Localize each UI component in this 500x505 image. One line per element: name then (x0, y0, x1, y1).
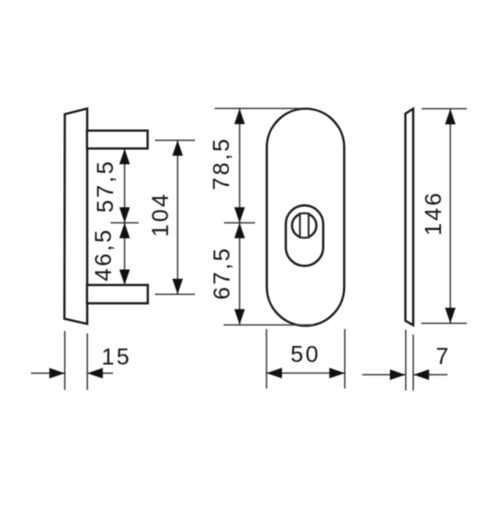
svg-text:7: 7 (436, 343, 451, 369)
cylinder protector oval (286, 205, 323, 266)
svg-text:46,5: 46,5 (90, 228, 116, 282)
extension line top right view (422, 108, 467, 110)
front view escutcheon outline (267, 109, 344, 326)
dimension line 78,5 (239, 108, 241, 222)
dimension 15 arrows (31, 372, 65, 374)
extension lines for 15 (64, 331, 66, 390)
extension lines for 104 (155, 139, 195, 141)
protector circle (292, 213, 316, 237)
tick at 57,5 / 46,5 break (111, 222, 139, 224)
left view top fixing pin (87, 131, 148, 149)
right view profile sliver (405, 109, 413, 326)
dimension line 57,5 (124, 149, 126, 223)
svg-text:15: 15 (102, 344, 132, 370)
key slot (300, 213, 309, 237)
dimension 7 arrows (362, 374, 405, 376)
extension line bottom of front view (224, 324, 314, 326)
svg-text:67,5: 67,5 (209, 246, 235, 300)
dimension line 46,5 (124, 223, 126, 285)
dimension line 50 (267, 372, 345, 374)
left view plate body (64, 109, 87, 324)
extension line bottom right view (421, 322, 467, 324)
svg-text:57,5: 57,5 (92, 159, 118, 213)
svg-text:146: 146 (420, 191, 446, 236)
svg-text:78,5: 78,5 (208, 137, 234, 191)
svg-text:104: 104 (147, 192, 173, 237)
left view bottom fixing pin (87, 285, 148, 303)
dimension line 104 (177, 140, 179, 294)
dimension line 67,5 (239, 223, 241, 325)
extension lines for 50 (266, 329, 268, 389)
extension line top of front view (215, 107, 300, 109)
extension lines for 7 (405, 330, 407, 391)
dimension line 146 (449, 109, 451, 324)
svg-text:50: 50 (291, 341, 321, 367)
tick at 78,5 / 67,5 break (224, 222, 255, 224)
